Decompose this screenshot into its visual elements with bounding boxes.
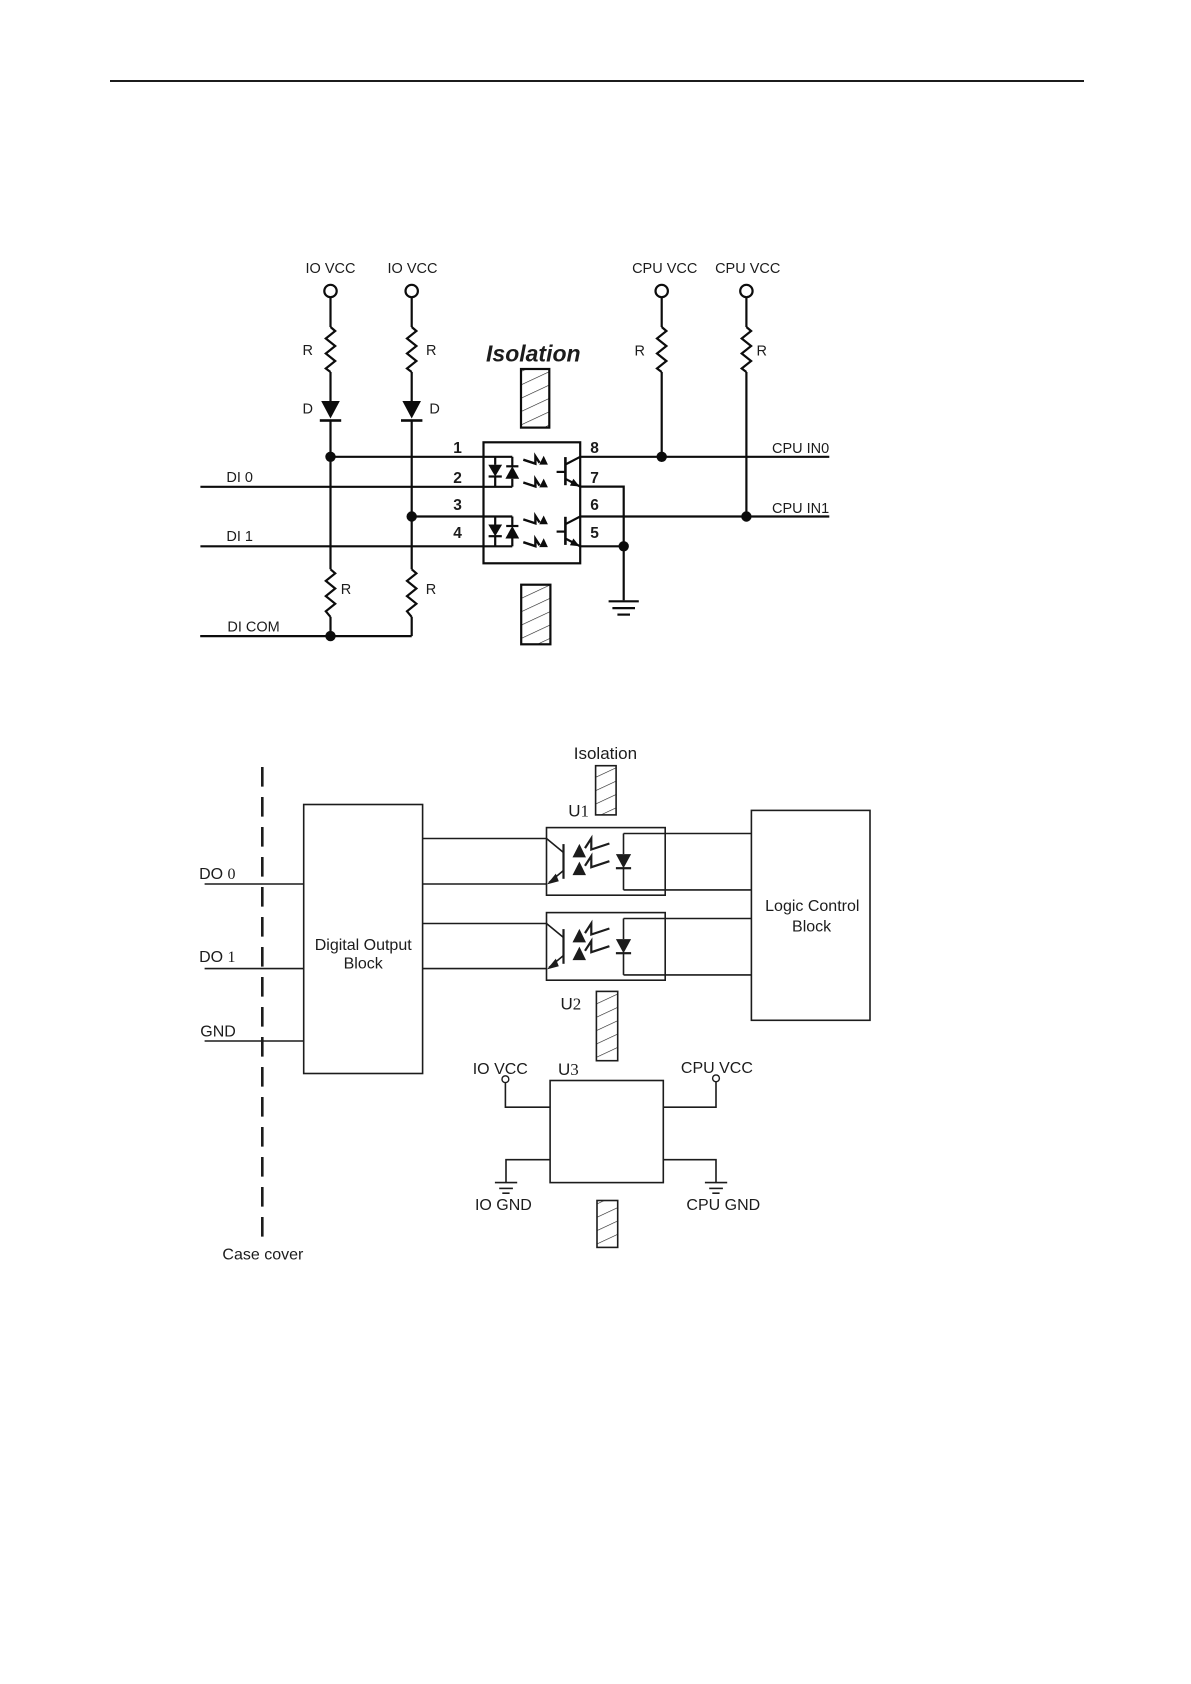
phototransistor B emitter arrowhead — [570, 539, 580, 547]
junction dot at DI COM — [325, 631, 335, 641]
phototransistor B emitter — [565, 539, 580, 547]
svg-text:DO 0: DO 0 — [199, 866, 235, 883]
svg-text:CPU GND: CPU GND — [686, 1197, 760, 1214]
U2 photon arrow 2 head — [573, 947, 587, 961]
svg-text:DI 1: DI 1 — [226, 529, 253, 545]
CPU GND symbol bar 3 — [712, 1192, 719, 1194]
svg-text:U1: U1 — [568, 802, 589, 821]
wire R5 to CPU IN0 node — [661, 372, 663, 457]
phototransistor A emitter arrowhead — [570, 479, 580, 487]
svg-text:GND: GND — [200, 1023, 236, 1040]
svg-text:DI COM: DI COM — [227, 620, 279, 636]
U2 photon arrow 2 tail — [585, 941, 609, 952]
resistor R5 — [657, 327, 666, 372]
optocoupler U1 body — [484, 442, 581, 563]
IO VCC terminal 2 — [406, 285, 418, 297]
wire U1 to LCB upper — [624, 833, 752, 835]
isolation barrier hatched block (top) — [521, 369, 549, 428]
svg-text:R: R — [426, 343, 436, 359]
svg-text:Logic Control: Logic Control — [765, 898, 859, 915]
IO VCC terminal 1 — [324, 285, 336, 297]
case cover dashed boundary — [261, 767, 264, 1237]
wire IO VCC to U3 — [505, 1083, 550, 1108]
photon arrow B2 head — [539, 538, 548, 547]
LED B1 triangle (down) — [488, 525, 502, 537]
CPU VCC terminal 1 — [656, 285, 668, 297]
CPU GND symbol bar 2 — [709, 1187, 723, 1189]
svg-text:CPU VCC: CPU VCC — [632, 261, 697, 277]
U2 LED triangle — [616, 939, 631, 953]
U1 LED cathode lead — [623, 868, 625, 890]
CPU VCC terminal circle — [713, 1075, 720, 1082]
junction dot at pin1 node — [325, 452, 335, 462]
svg-text:D: D — [429, 402, 439, 418]
diode D2 triangle — [402, 401, 421, 419]
wire U2 to LCB upper — [624, 918, 752, 920]
LED A1 triangle (down) — [488, 465, 502, 477]
resistor R6 — [742, 327, 751, 372]
U2 LED cathode bar — [616, 952, 631, 954]
U1 LED anode lead — [623, 834, 625, 855]
LED pair A rail bottom (pin2 inside) — [484, 486, 513, 488]
wire node pin3 to optocoupler pin 3 — [412, 515, 484, 517]
LED B2 leads — [511, 517, 513, 527]
svg-text:R: R — [341, 582, 351, 598]
phototransistor B base bar — [564, 517, 567, 545]
wire DI 1 input to optocoupler pin 4 — [200, 545, 483, 547]
phototransistor A base bar — [564, 457, 567, 485]
svg-text:4: 4 — [453, 525, 462, 542]
U1 phototransistor base bar — [562, 844, 564, 879]
photon arrow A2 head — [539, 479, 548, 488]
wire GND input — [205, 1040, 304, 1042]
photon arrow B1 tail — [523, 516, 539, 523]
IO VCC terminal circle — [502, 1076, 509, 1083]
diode D2 bar — [401, 419, 422, 422]
svg-text:CPU IN0: CPU IN0 — [772, 441, 829, 457]
U2 LED cathode lead — [623, 953, 625, 975]
svg-text:DI 0: DI 0 — [226, 470, 253, 486]
wire DOB to U2 upper — [423, 923, 547, 925]
svg-text:IO VCC: IO VCC — [388, 261, 438, 277]
svg-text:U3: U3 — [558, 1060, 579, 1079]
svg-text:DO 1: DO 1 — [199, 949, 235, 966]
svg-text:R: R — [426, 582, 436, 598]
optocoupler U2 body — [547, 913, 666, 981]
Digital Output Block box — [304, 805, 423, 1074]
wire IO VCC2 to resistor R2 — [411, 297, 413, 327]
phototransistor B collector — [565, 517, 580, 525]
LED B2 cathode bar — [506, 525, 518, 527]
LED A2 triangle (up) — [505, 466, 519, 479]
svg-text:3: 3 — [453, 497, 462, 514]
isolation hatched block S2 top — [596, 766, 617, 815]
wire R3 to DI COM — [329, 617, 331, 636]
svg-text:R: R — [757, 344, 767, 360]
LED A2 leads — [511, 457, 513, 467]
IO GND symbol bar 3 — [502, 1192, 509, 1194]
wire R2 to diode D2 — [411, 372, 413, 401]
U1 LED triangle — [616, 854, 631, 868]
svg-text:6: 6 — [590, 497, 599, 514]
photon arrow B1 head — [539, 516, 548, 525]
svg-text:Isolation: Isolation — [486, 341, 581, 367]
isolation hatched block S2 bottom — [597, 1201, 618, 1248]
ground symbol bar 2 — [612, 607, 635, 609]
LED B1 cathode bar — [489, 535, 502, 537]
U2 LED anode lead — [623, 919, 625, 940]
wire R1 to diode D1 — [329, 372, 331, 401]
photon arrow A2 tail — [523, 479, 539, 486]
U2 phototransistor base bar — [562, 929, 564, 964]
ground symbol bar 1 — [609, 600, 639, 602]
junction dot CPU IN0 node — [657, 452, 667, 462]
photon arrow A1 tail — [523, 456, 539, 463]
wire CPU VCC1 to R5 — [661, 297, 663, 327]
LED B2 triangle (up) — [505, 526, 519, 539]
IO GND symbol bar 2 — [499, 1187, 513, 1189]
wire pin3 node down through R4 to DI COM corner — [411, 517, 413, 570]
wire DO 1 input — [205, 968, 304, 970]
LED pair B rail bottom (pin4 inside) — [484, 545, 513, 547]
wire ground node down — [623, 546, 625, 600]
U1 photon arrow 2 head — [573, 862, 587, 876]
U2 phototransistor collector — [547, 924, 564, 938]
wire R6 to CPU IN1 node — [745, 372, 747, 517]
svg-text:Case cover: Case cover — [222, 1247, 304, 1264]
Logic Control Block box — [751, 810, 870, 1020]
svg-text:2: 2 — [453, 470, 462, 487]
optocoupler U1 body — [547, 828, 666, 896]
wire DI 0 input to optocoupler pin 2 — [200, 486, 483, 488]
IO GND symbol bar 1 — [495, 1182, 517, 1184]
LED A2 cathode bar — [506, 465, 518, 467]
svg-text:R: R — [303, 343, 313, 359]
svg-text:Isolation: Isolation — [574, 744, 637, 763]
phototransistor A emitter — [565, 479, 580, 487]
LED A1 leads — [494, 457, 496, 465]
junction dot CPU IN1 node — [741, 511, 751, 521]
diode D1 triangle — [321, 401, 340, 419]
U1 phototransistor collector — [547, 839, 564, 853]
LED B1 leads — [494, 517, 496, 525]
svg-text:Block: Block — [344, 956, 384, 973]
svg-text:IO VCC: IO VCC — [473, 1061, 528, 1078]
photon arrow B2 tail — [523, 539, 539, 546]
LED pair A rail top (pin1 inside) — [484, 456, 513, 458]
svg-text:R: R — [635, 344, 645, 360]
wire DOB to U2 lower — [423, 968, 547, 970]
wire DOB to U1 lower — [423, 883, 547, 885]
wire CPU IN1 (pin 6) — [580, 515, 829, 517]
svg-text:CPU VCC: CPU VCC — [681, 1060, 753, 1077]
wire CPU VCC2 to R6 — [745, 297, 747, 327]
svg-text:IO VCC: IO VCC — [306, 261, 356, 277]
isolation barrier hatched block (bottom) — [521, 585, 550, 645]
svg-text:IO GND: IO GND — [475, 1197, 532, 1214]
svg-text:8: 8 — [590, 440, 599, 457]
wire DI COM rail — [200, 635, 412, 637]
svg-text:D: D — [303, 402, 313, 418]
wire D2 down to pin3 node — [411, 421, 413, 517]
wire DOB to U1 upper — [423, 838, 547, 840]
phototransistor B base lead — [557, 530, 566, 532]
CPU VCC terminal 2 — [740, 285, 752, 297]
LED pair B rail top (pin3 inside) — [484, 515, 513, 517]
junction dot pin5 node — [619, 541, 629, 551]
LED A1 cathode bar — [489, 475, 502, 477]
svg-text:5: 5 — [590, 525, 599, 542]
svg-text:U2: U2 — [561, 994, 582, 1013]
phototransistor A collector — [565, 457, 580, 465]
diode D1 bar — [320, 419, 341, 422]
header rule — [110, 80, 1084, 82]
wire U2 to LCB lower — [624, 974, 752, 976]
U2 phototransistor emitter arrowhead — [547, 959, 559, 970]
wire U3 to CPU GND — [663, 1160, 716, 1182]
ground symbol bar 3 — [617, 613, 630, 615]
phototransistor A base lead — [557, 471, 566, 473]
U1 phototransistor emitter arrowhead — [547, 874, 559, 885]
svg-text:Digital Output: Digital Output — [315, 937, 412, 954]
junction dot at pin3 node — [407, 511, 417, 521]
CPU GND symbol bar 1 — [705, 1182, 727, 1184]
U2 photon arrow 1 tail — [585, 923, 609, 934]
svg-text:CPU VCC: CPU VCC — [715, 261, 780, 277]
wire node pin1 to optocoupler pin 1 — [331, 456, 484, 458]
U2 photon arrow 1 head — [573, 929, 587, 943]
resistor R3 (lower left) — [326, 569, 335, 617]
wire U1 to LCB lower — [624, 889, 752, 891]
U2 phototransistor emitter — [549, 956, 564, 968]
svg-text:Block: Block — [792, 918, 832, 935]
wire IO VCC1 to resistor R1 — [329, 297, 331, 327]
svg-text:CPU IN1: CPU IN1 — [772, 501, 829, 517]
wire U3 to IO GND — [506, 1160, 550, 1182]
U1 photon arrow 1 tail — [585, 838, 609, 849]
svg-text:7: 7 — [590, 470, 599, 487]
resistor R2 — [407, 327, 416, 372]
resistor R1 — [326, 327, 335, 372]
U1 photon arrow 1 head — [573, 844, 587, 858]
DC-DC converter U3 body — [550, 1081, 663, 1183]
wire pin 7 to vertical — [580, 487, 624, 547]
svg-text:1: 1 — [453, 440, 462, 457]
wire D1 down to lower resistor R3 — [329, 421, 331, 570]
photon arrow A1 head — [539, 456, 548, 465]
isolation hatched block S2 middle — [596, 991, 617, 1060]
U1 LED cathode bar — [616, 867, 631, 869]
wire CPU VCC to U3 — [663, 1082, 716, 1108]
wire pin 5 to ground node — [580, 545, 624, 547]
resistor R4 (lower right) — [407, 569, 416, 617]
U1 photon arrow 2 tail — [585, 856, 609, 867]
wire DO 0 input — [205, 883, 304, 885]
wire R4 to DI COM — [411, 617, 413, 636]
U1 phototransistor emitter — [549, 871, 564, 883]
wire CPU IN0 (pin 8) — [580, 456, 829, 458]
